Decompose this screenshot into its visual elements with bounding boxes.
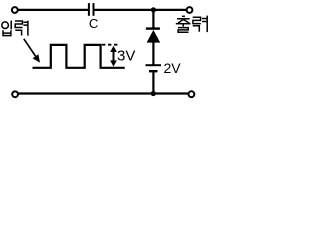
capacitor C (right plate) — [93, 3, 95, 16]
square-wave input waveform — [33, 45, 125, 68]
node: bottom junction dot — [151, 91, 156, 96]
3V double-headed arrow — [110, 46, 117, 67]
label 출력 (output) : hangul CHUL — [176, 16, 191, 32]
node: top junction dot — [151, 7, 156, 12]
wire: diode to battery — [152, 42, 154, 65]
label 입력 (input) : hangul RYEOK — [15, 21, 28, 36]
capacitor C (left plate) — [88, 3, 90, 16]
bottom-left terminal (open circle) — [12, 91, 18, 97]
battery 2V (long positive plate) — [146, 64, 162, 66]
input terminal (top-left open circle) — [12, 7, 18, 13]
arrow from input label to waveform — [24, 39, 40, 63]
dashed reference line (high level) — [102, 44, 118, 46]
svg-text:C: C — [89, 16, 99, 31]
battery 2V (short negative plate) — [149, 70, 158, 72]
label 출력 (output) : hangul RYEOK — [193, 16, 208, 32]
wire: battery to bottom rail — [152, 71, 154, 93]
svg-text:2V: 2V — [164, 60, 182, 76]
bottom-right terminal (open circle) — [189, 91, 195, 97]
diode D (triangle, pointing up) — [147, 30, 161, 43]
wire: input terminal to capacitor — [18, 9, 88, 11]
wire: capacitor to output terminal — [94, 9, 186, 11]
svg-text:3V: 3V — [117, 47, 135, 64]
label 입력 (input) : hangul IB — [2, 21, 11, 36]
output terminal (top-right open circle) — [187, 7, 193, 13]
wire: top node to diode — [152, 10, 154, 29]
diode D (cathode bar) — [146, 27, 160, 29]
bottom rail wire — [18, 92, 188, 94]
